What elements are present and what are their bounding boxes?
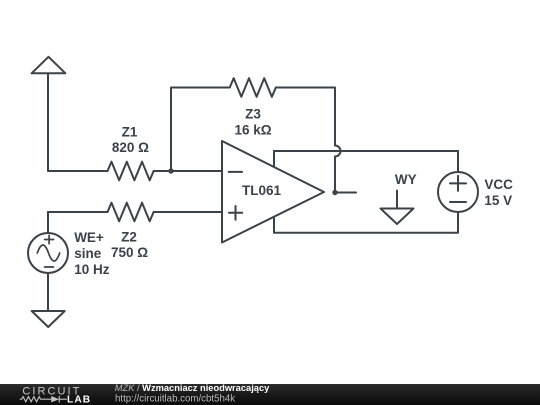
svg-text:WE+: WE+	[74, 230, 104, 245]
svg-text:TL061: TL061	[242, 183, 282, 198]
svg-text:15 V: 15 V	[484, 193, 512, 208]
svg-text:Z3: Z3	[245, 107, 261, 122]
svg-text:MZK / Wzmacniacz nieodwracając: MZK / Wzmacniacz nieodwracający	[115, 383, 270, 393]
svg-text:750 Ω: 750 Ω	[111, 245, 148, 260]
svg-text:10 Hz: 10 Hz	[74, 262, 110, 277]
svg-text:16 kΩ: 16 kΩ	[234, 122, 271, 137]
svg-text:Z2: Z2	[121, 229, 137, 244]
svg-text:820 Ω: 820 Ω	[112, 140, 149, 155]
svg-text:sine: sine	[74, 246, 102, 261]
svg-text:LAB: LAB	[67, 395, 91, 405]
svg-text:Z1: Z1	[122, 124, 138, 139]
svg-text:http://circuitlab.com/cbt5h4k: http://circuitlab.com/cbt5h4k	[115, 393, 235, 404]
svg-text:WY: WY	[395, 172, 417, 187]
svg-text:VCC: VCC	[484, 177, 513, 192]
